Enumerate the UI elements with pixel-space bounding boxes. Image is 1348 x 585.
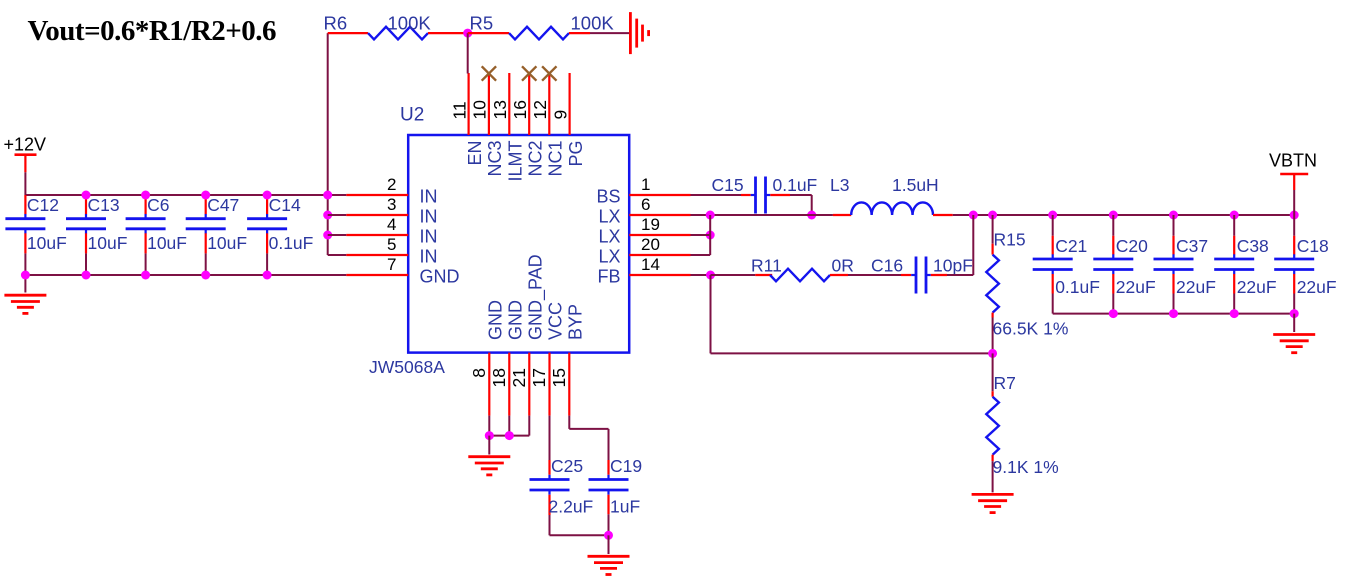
svg-text:IN: IN [420, 227, 438, 247]
svg-text:C13: C13 [88, 195, 120, 215]
no-connect X on pin 16 [522, 66, 536, 80]
wire R5 to ground [590, 32, 630, 34]
U2 pin 14 (FB) [597, 255, 690, 287]
svg-text:PG: PG [566, 141, 586, 167]
svg-text:16: 16 [510, 100, 530, 119]
svg-text:ILMT: ILMT [506, 141, 526, 182]
U2 pin 9 (PG) [550, 73, 585, 167]
svg-text:C12: C12 [27, 195, 59, 215]
svg-text:C18: C18 [1297, 236, 1329, 256]
junction LX pin19 [706, 231, 715, 240]
wire C16 to output node [931, 215, 974, 275]
capacitor C15 plates [751, 177, 771, 214]
junction output bus at C38 [1230, 211, 1239, 220]
wire pin4 stub [328, 234, 347, 236]
U2 pin 16 (NC2) [510, 73, 545, 177]
svg-text:NC1: NC1 [546, 141, 566, 177]
L3 label [830, 175, 849, 195]
svg-text:U2: U2 [400, 105, 424, 126]
wire LX vertical [709, 215, 711, 255]
IC U2 JW5068A body [408, 135, 629, 353]
svg-text:22uF: 22uF [1176, 277, 1216, 297]
svg-text:2.2uF: 2.2uF [549, 497, 594, 517]
svg-text:2: 2 [387, 175, 396, 194]
junction output bottom bus [1230, 309, 1239, 318]
wire FB to divider mid [711, 352, 993, 354]
junction bottom bus at C6 [141, 271, 150, 280]
svg-text:15: 15 [549, 368, 569, 387]
svg-text:C37: C37 [1176, 236, 1208, 256]
svg-text:22uF: 22uF [1237, 277, 1277, 297]
ground below C19 [588, 556, 630, 574]
ground at output bank [1273, 335, 1315, 353]
capacitor C21 0.1uF [1033, 215, 1100, 314]
R7 label [994, 373, 1016, 393]
wire VCC to C25 [549, 416, 551, 475]
U2 pin 7 (GND) [346, 255, 459, 287]
svg-text:R15: R15 [994, 230, 1026, 250]
svg-text:IN: IN [420, 207, 438, 227]
wire BS to C15 [691, 194, 751, 196]
svg-text:C25: C25 [551, 456, 583, 476]
no-connect X on pin 12 [542, 66, 556, 80]
resistor R5 [468, 27, 590, 40]
svg-text:10uF: 10uF [207, 233, 247, 253]
wire R6 vertical to IN bus [327, 33, 329, 255]
svg-text:10uF: 10uF [147, 233, 187, 253]
R11 value 0R [832, 256, 854, 276]
svg-text:10uF: 10uF [88, 233, 128, 253]
svg-text:9: 9 [550, 110, 570, 120]
svg-text:1.5uH: 1.5uH [892, 175, 939, 195]
C15 label [712, 175, 744, 195]
junction pin3 [323, 211, 332, 220]
R7 value 9.1K 1% [993, 457, 1059, 477]
U2 pin 11 (EN) [449, 73, 484, 166]
junction bottom bus at C47 [201, 271, 210, 280]
wire +12V down [24, 172, 26, 195]
wire output bus [953, 214, 1294, 216]
svg-text:BS: BS [596, 187, 620, 207]
wire R15 to mid [992, 318, 994, 354]
wire junction to pin 11 [467, 33, 469, 73]
capacitor C20 22uF [1093, 215, 1155, 314]
svg-text:JW5068A: JW5068A [369, 357, 445, 377]
wire pin19 stub [691, 234, 711, 236]
capacitor C6 10uF [126, 195, 187, 275]
junction divider mid [988, 349, 997, 358]
svg-text:1uF: 1uF [610, 497, 640, 517]
svg-text:9.1K 1%: 9.1K 1% [993, 457, 1059, 477]
C19 value 1uF [610, 497, 640, 517]
capacitor C12 10uF [5, 195, 66, 275]
svg-text:NC3: NC3 [485, 141, 505, 177]
svg-text:18: 18 [489, 368, 509, 387]
capacitor C13 10uF [66, 195, 127, 275]
U2 pin 17 (VCC) [529, 302, 566, 416]
inductor L3 1.5uH [833, 202, 953, 215]
ground (sideways) at R5 [630, 12, 648, 54]
R6 value 100K [388, 13, 432, 34]
U2 pin 18 (GND) [489, 300, 526, 416]
svg-text:13: 13 [490, 100, 510, 119]
svg-text:L3: L3 [830, 175, 849, 195]
svg-text:12: 12 [530, 100, 550, 119]
capacitor C47 10uF [186, 195, 247, 275]
resistor R6 [328, 27, 468, 40]
junction output bus at R15 branch [988, 211, 997, 220]
svg-text:66.5K 1%: 66.5K 1% [993, 319, 1069, 339]
wire FB down [710, 275, 712, 353]
svg-text:IN: IN [420, 187, 438, 207]
U2 pin 20 (LX) [598, 235, 690, 267]
svg-text:11: 11 [449, 101, 469, 119]
svg-text:8: 8 [469, 368, 489, 378]
C25 label [551, 456, 583, 476]
C16 label [871, 256, 903, 276]
R5 label [470, 13, 494, 34]
svg-text:0R: 0R [832, 256, 854, 276]
svg-text:R5: R5 [470, 13, 494, 34]
junction output bottom bus [1109, 309, 1118, 318]
wire R7 to ground [992, 461, 994, 492]
junction bottom bus at C13 [82, 271, 91, 280]
junction bottom bus at C12 [21, 271, 30, 280]
R15 label [994, 230, 1026, 250]
wire pin8 down [488, 416, 490, 436]
wire C19 bottom [608, 514, 610, 535]
svg-text:C16: C16 [871, 256, 903, 276]
svg-text:Vout=0.6*R1/R2+0.6: Vout=0.6*R1/R2+0.6 [28, 15, 277, 47]
power +12V label [4, 135, 47, 155]
junction LX pin6 [706, 211, 715, 220]
svg-text:R7: R7 [994, 373, 1016, 393]
C16 value 10pF [933, 256, 973, 276]
U2 pin 13 (ILMT) [490, 73, 525, 182]
wire input top bus [25, 194, 346, 196]
svg-text:C15: C15 [712, 175, 744, 195]
svg-text:10pF: 10pF [933, 256, 973, 276]
no-connect X on pin 10 [482, 66, 496, 80]
U2 designator label [400, 105, 424, 126]
wire C25 bottom [550, 515, 609, 535]
L3 value 1.5uH [892, 175, 939, 195]
svg-text:C20: C20 [1116, 236, 1148, 256]
svg-text:C21: C21 [1055, 236, 1087, 256]
ground at IC gnd pad [468, 457, 510, 475]
C19 label [610, 456, 642, 476]
capacitor C25 2.2uF [530, 475, 570, 515]
svg-text:C38: C38 [1237, 236, 1269, 256]
U2 pin 12 (NC1) [530, 73, 565, 177]
wire pin20 stub [691, 254, 711, 256]
junction top bus at C13 [82, 191, 91, 200]
wire FB node [691, 274, 711, 276]
svg-text:4: 4 [387, 215, 396, 234]
svg-text:0.1uF: 0.1uF [773, 175, 818, 195]
U2 pin 5 (IN) [346, 235, 437, 267]
U2 pin 21 (GND_PAD) [509, 254, 547, 415]
wire gnd pad bus [489, 435, 529, 437]
svg-text:LX: LX [598, 247, 620, 267]
svg-text:C6: C6 [147, 195, 169, 215]
svg-text:IN: IN [420, 247, 438, 267]
ground at input bank [4, 295, 46, 313]
resistor R11 0R [755, 269, 848, 282]
resistor R15 [986, 244, 999, 318]
svg-text:C19: C19 [610, 456, 642, 476]
U2 part number JW5068A [369, 357, 445, 377]
wire input bottom bus [25, 274, 346, 276]
capacitor C19 1uF [589, 475, 629, 515]
svg-text:14: 14 [641, 255, 660, 274]
svg-text:VCC: VCC [546, 302, 566, 340]
svg-text:100K: 100K [388, 13, 432, 34]
wire output bottom bus [1053, 313, 1295, 315]
wire gnd pad drop [488, 436, 490, 455]
U2 pin 1 (BS) [596, 175, 690, 207]
wire ground drop left [24, 275, 26, 293]
U2 pin 8 (GND) [469, 300, 506, 416]
junction output bottom bus [1290, 309, 1299, 318]
junction C25/C19 ground node [604, 531, 613, 540]
junction output bus at C37 [1169, 211, 1178, 220]
svg-text:17: 17 [529, 368, 549, 387]
svg-text:GND: GND [506, 300, 526, 340]
title formula Vout=0.6*R1/R2+0.6 [28, 15, 277, 47]
svg-text:0.1uF: 0.1uF [1055, 277, 1100, 297]
wire mid to R7 [992, 353, 994, 391]
R11 label [751, 256, 782, 276]
svg-text:+12V: +12V [4, 135, 47, 155]
wire pin18 down [508, 416, 510, 436]
svg-text:R11: R11 [751, 256, 782, 276]
U2 pin 2 (IN) [346, 175, 437, 207]
svg-text:1: 1 [641, 175, 650, 194]
junction output bus at Vout/C16 branch [969, 211, 978, 220]
junction gnd pad pin8 [485, 431, 494, 440]
svg-text:GND: GND [420, 267, 460, 287]
svg-text:5: 5 [387, 235, 396, 254]
wire pin5 stub [328, 254, 347, 256]
svg-text:R6: R6 [324, 13, 348, 34]
R15 value 66.5K 1% [993, 319, 1069, 339]
svg-text:EN: EN [465, 141, 485, 166]
svg-text:NC2: NC2 [525, 141, 545, 177]
wire output ground drop [1293, 314, 1295, 332]
svg-text:19: 19 [641, 215, 660, 234]
R5 value 100K [571, 13, 615, 34]
svg-text:22uF: 22uF [1297, 277, 1337, 297]
svg-text:C47: C47 [207, 195, 239, 215]
U2 pin 3 (IN) [346, 195, 437, 227]
wire output to R15 [992, 215, 994, 244]
junction output bus at C18/VBTN [1290, 211, 1299, 220]
svg-text:20: 20 [641, 235, 660, 254]
svg-text:FB: FB [597, 267, 620, 287]
junction bottom bus at C14 [263, 271, 272, 280]
resistor R7 [986, 391, 999, 461]
wire pin3 stub [328, 214, 347, 216]
power +12V bar symbol [15, 155, 37, 173]
node R5/R6 junction [463, 29, 472, 38]
capacitor C16 plates [911, 257, 931, 294]
svg-text:6: 6 [641, 195, 650, 214]
junction output bottom bus [1169, 309, 1178, 318]
svg-text:GND_PAD: GND_PAD [526, 254, 547, 340]
svg-text:GND: GND [486, 300, 506, 340]
capacitor C14 0.1uF [247, 195, 313, 275]
capacitor C37 22uF [1154, 215, 1216, 314]
svg-text:BYP: BYP [566, 304, 586, 340]
wire to bottom ground [608, 535, 610, 554]
wire C15 right to LX [770, 195, 811, 215]
U2 pin 4 (IN) [346, 215, 437, 247]
wire FB to R11 [711, 274, 756, 276]
svg-text:22uF: 22uF [1116, 277, 1156, 297]
R6 label [324, 13, 348, 34]
junction C15/LX [807, 211, 816, 220]
junction top bus at C47 [201, 191, 210, 200]
svg-text:LX: LX [598, 227, 620, 247]
capacitor C18 22uF [1274, 215, 1336, 314]
svg-text:10uF: 10uF [27, 233, 67, 253]
C25 value 2.2uF [549, 497, 594, 517]
junction output bus at C21 [1048, 211, 1057, 220]
wire BYP to C19 [569, 416, 608, 475]
U2 pin 19 (LX) [598, 215, 690, 247]
junction pin4 [323, 231, 332, 240]
U2 pin 6 (LX) [598, 195, 690, 227]
ground at R7 [972, 494, 1014, 512]
svg-text:100K: 100K [571, 13, 615, 34]
svg-text:7: 7 [387, 255, 396, 274]
wire LX bus [691, 214, 833, 216]
svg-text:0.1uF: 0.1uF [269, 233, 314, 253]
junction gnd pad pin18 [505, 431, 514, 440]
svg-text:21: 21 [509, 368, 529, 387]
U2 pin 10 (NC3) [470, 73, 505, 177]
U2 pin 15 (BYP) [549, 304, 586, 416]
junction top bus at C14 [263, 191, 272, 200]
svg-text:10: 10 [470, 100, 490, 120]
C15 value 0.1uF [773, 175, 818, 195]
wire pin21 down [528, 416, 530, 436]
svg-text:LX: LX [598, 207, 620, 227]
power VBTN bar symbol [1280, 174, 1308, 190]
wire R11 to C16 [848, 274, 911, 276]
junction IN bus / R6 [323, 191, 332, 200]
svg-text:VBTN: VBTN [1269, 151, 1317, 171]
junction output bus at C20 [1109, 211, 1118, 220]
capacitor C38 22uF [1214, 215, 1276, 314]
wire VBTN down [1293, 190, 1295, 215]
power VBTN label [1269, 151, 1317, 171]
svg-text:3: 3 [387, 195, 396, 214]
junction FB [706, 271, 715, 280]
junction top bus at C6 [141, 191, 150, 200]
svg-text:C14: C14 [269, 195, 301, 215]
